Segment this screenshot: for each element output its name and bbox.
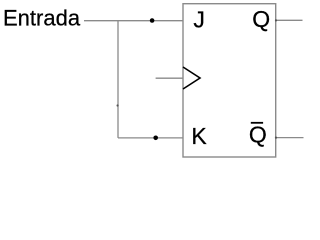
wire: Q-bar output xyxy=(276,137,304,139)
wire: vertical branch xyxy=(117,21,119,138)
wire: Entrada to J input xyxy=(84,20,183,22)
flip-flop U1 body xyxy=(183,4,276,157)
svg-text:Q: Q xyxy=(249,121,267,147)
wire: Q output xyxy=(276,19,303,21)
svg-text:Q: Q xyxy=(252,6,270,32)
anchor speck at Q output pin xyxy=(275,19,277,21)
junction dot on J wire xyxy=(150,18,155,23)
svg-text:K: K xyxy=(191,123,207,149)
svg-text:J: J xyxy=(193,7,205,33)
clock edge triangle xyxy=(183,67,200,89)
overline of Q-bar xyxy=(251,122,263,124)
anchor speck at Q-bar output pin xyxy=(275,137,277,139)
svg-text:Entrada: Entrada xyxy=(3,6,81,31)
junction dot on K wire xyxy=(153,136,158,141)
wire: clock input xyxy=(156,77,183,79)
wire: branch to K input xyxy=(118,137,183,139)
anchor speck on branch wire xyxy=(117,104,119,106)
